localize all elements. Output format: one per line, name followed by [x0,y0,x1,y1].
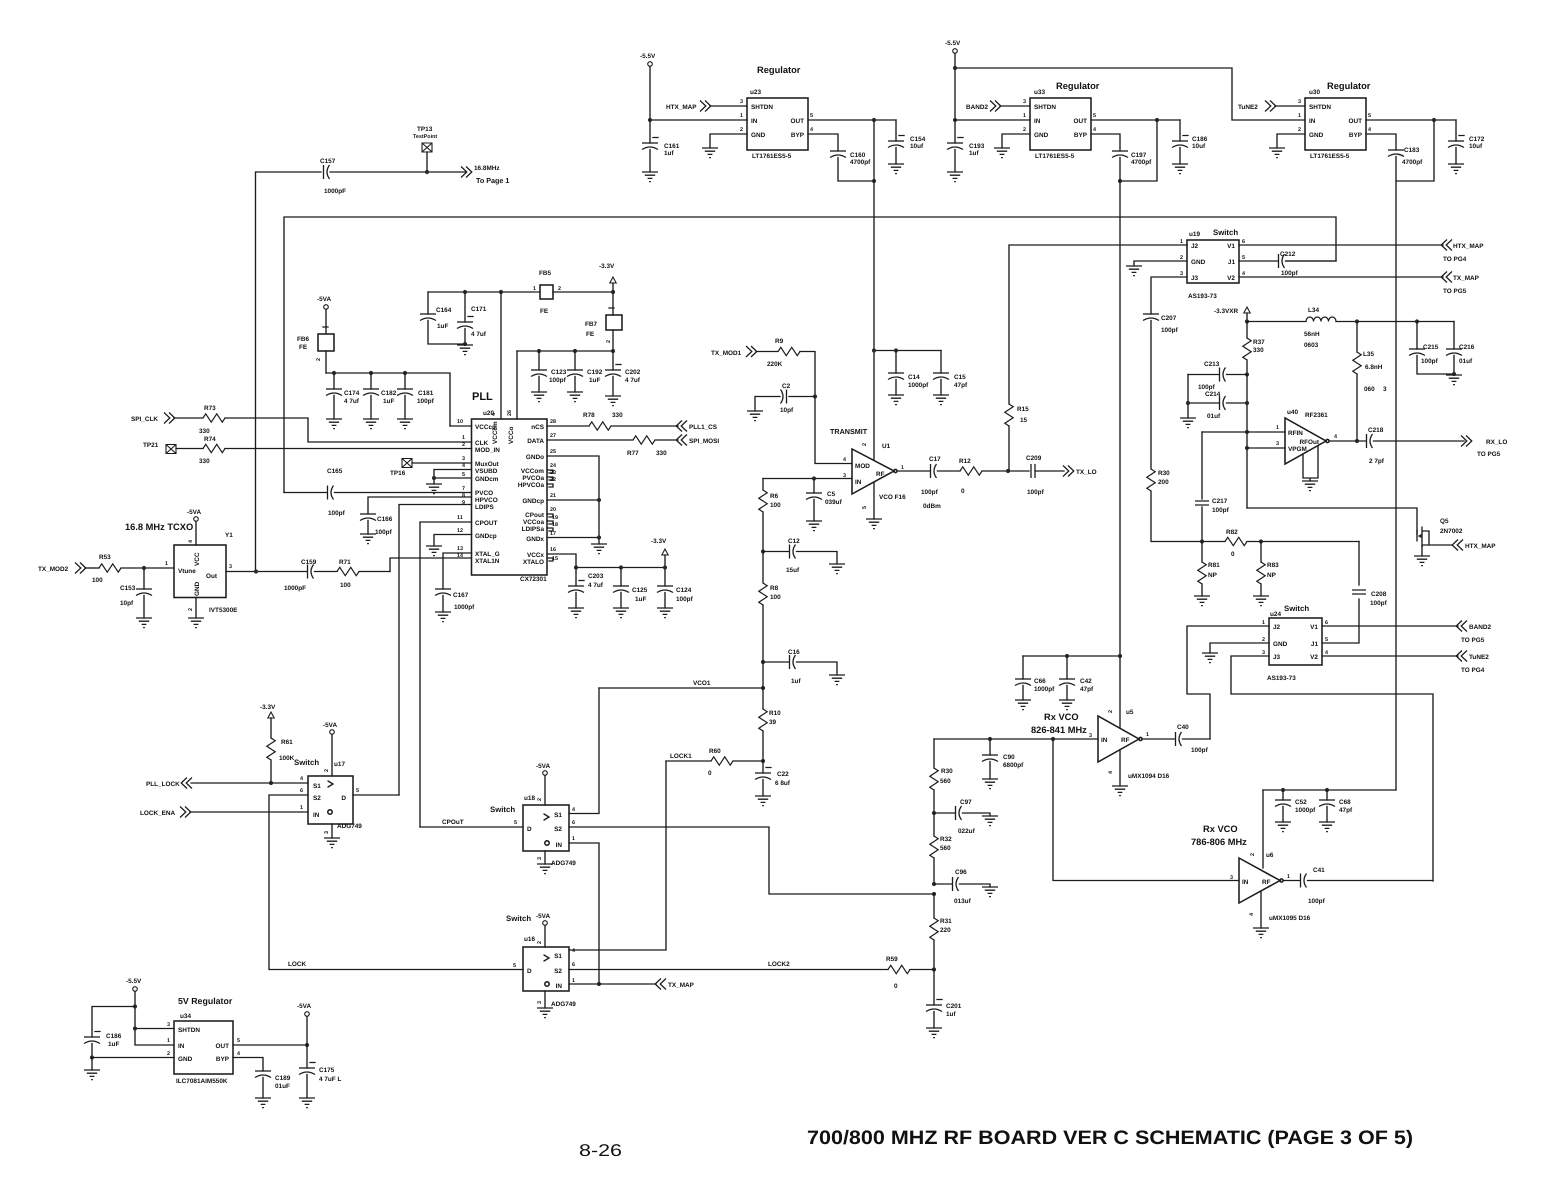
svg-text:13: 13 [457,546,463,552]
resistor R77 330 + off-page SPI_MOSI (pin27) [547,435,719,458]
svg-text:3: 3 [537,1001,543,1004]
svg-text:GND: GND [1309,132,1324,139]
svg-text:TestPoint: TestPoint [413,134,437,140]
svg-text:1000pF: 1000pF [284,585,306,592]
svg-text:4: 4 [810,127,813,133]
svg-text:C217: C217 [1212,498,1228,505]
svg-text:C214: C214 [1205,391,1221,398]
capacitor C167 1000pf (XTAL_G pin13) [435,553,475,622]
wire U5 pin4 ground [1112,750,1128,796]
capacitor C153 10pf [120,568,152,628]
svg-text:TX_MAP: TX_MAP [668,982,695,989]
wire U24 V1 + off-page BAND2 TO PG5 [1322,621,1491,645]
svg-text:C52: C52 [1295,799,1307,806]
svg-text:NP: NP [1267,572,1277,579]
power -3.3V at VCCx rail [651,538,668,570]
VCO module U5 Rx VCO 826-841 MHz [1031,656,1170,780]
svg-text:5: 5 [513,963,516,969]
svg-text:u30: u30 [1309,89,1320,96]
svg-text:1uf: 1uf [969,150,979,157]
wire C164/C171 rail y292 [428,290,540,294]
svg-text:0: 0 [894,983,898,990]
svg-text:VCCoa: VCCoa [523,519,544,526]
svg-text:GND: GND [194,581,201,596]
svg-text:C166: C166 [377,516,393,523]
testpoint TP21 + resistor R74 330 (MOD_IN) [143,436,472,465]
capacitor C160 4700pf [808,134,876,183]
svg-text:TX_MOD1: TX_MOD1 [711,350,742,357]
svg-text:RFIN: RFIN [1288,430,1303,437]
svg-text:RF2361: RF2361 [1305,412,1328,419]
svg-text:C15: C15 [954,374,966,381]
wire U19 V2 + off-page TX_MAP TO PG5 [1239,272,1480,296]
svg-text:S1: S1 [313,783,321,790]
svg-text:GNDo: GNDo [526,454,544,461]
svg-text:R6: R6 [770,493,779,500]
resistor R37 330 [1243,322,1265,377]
amplifier U40 RF2361 [1276,409,1337,464]
wire Q5 gate from VPGM node [1247,508,1417,534]
svg-text:100pf: 100pf [417,398,435,405]
svg-text:uMX1095 D16: uMX1095 D16 [1269,915,1311,922]
svg-text:J1: J1 [1228,259,1236,266]
off-page connector 16.8MHz [461,165,509,185]
svg-text:100: 100 [340,582,351,589]
svg-text:15uf: 15uf [786,567,800,574]
svg-text:C125: C125 [632,587,648,594]
svg-text:1: 1 [533,286,536,292]
capacitor C154 10uf [888,120,926,174]
svg-text:u18: u18 [524,795,535,802]
svg-text:5V Regulator: 5V Regulator [178,996,233,1006]
capacitor C203 4.7uf [568,568,604,618]
wire RFIN row [1202,431,1285,433]
svg-text:SHTDN: SHTDN [1034,104,1056,111]
svg-text:R71: R71 [339,559,351,566]
svg-text:2: 2 [1180,255,1183,261]
svg-text:-3.3V: -3.3V [260,704,276,711]
svg-text:330: 330 [612,412,623,419]
svg-text:4: 4 [1249,913,1255,916]
svg-text:C12: C12 [788,538,800,545]
svg-text:R53: R53 [99,554,111,561]
power -5.5V (reg2) [945,40,961,143]
svg-text:1: 1 [1287,874,1290,880]
svg-text:100pf: 100pf [1308,898,1326,905]
svg-text:27: 27 [550,433,556,439]
svg-text:C16: C16 [788,649,800,656]
svg-text:CPOUT: CPOUT [475,520,497,527]
svg-text:4: 4 [843,457,846,463]
svg-text:TP21: TP21 [143,442,159,449]
svg-text:R61: R61 [281,739,293,746]
svg-text:C171: C171 [471,306,487,313]
svg-text:BAND2: BAND2 [966,104,988,111]
svg-text:2: 2 [324,769,330,772]
capacitor C215 100pf [1409,322,1454,375]
svg-text:IN: IN [178,1043,185,1050]
svg-text:3: 3 [1180,271,1183,277]
wire U17 S2 to LOCK net [269,795,523,970]
svg-text:V1: V1 [1227,243,1235,250]
svg-text:C157: C157 [320,158,336,165]
power -5.5V for U34 [126,978,174,1045]
capacitor C208 100pf [1322,542,1388,644]
svg-text:1: 1 [300,805,303,811]
svg-text:IN: IN [855,479,862,486]
svg-text:L35: L35 [1363,351,1374,358]
resistor R32 560 [930,813,952,886]
capacitor C12 15uf [761,538,845,574]
svg-text:MOD: MOD [855,463,870,470]
svg-text:TP13: TP13 [417,126,433,133]
svg-text:L34: L34 [1308,307,1319,314]
svg-text:u6: u6 [1266,852,1274,859]
svg-text:ADG749: ADG749 [551,1001,576,1008]
svg-text:R12: R12 [959,458,971,465]
svg-text:-5VA: -5VA [536,763,550,770]
svg-text:100K: 100K [279,755,295,762]
svg-text:LOCK_ENA: LOCK_ENA [140,810,176,817]
svg-text:11: 11 [457,515,463,521]
svg-text:C207: C207 [1161,315,1177,322]
svg-text:C159: C159 [301,559,317,566]
svg-text:S2: S2 [554,968,562,975]
svg-text:FE: FE [586,331,595,338]
svg-text:u23: u23 [750,89,761,96]
svg-text:3: 3 [229,564,232,570]
wire U24 J3 staircase to C41 [1231,656,1433,881]
svg-text:GNDx: GNDx [526,536,544,543]
svg-text:6: 6 [1242,239,1245,245]
off-page connector HTX_MAP to reg1 [666,99,747,112]
svg-text:C218: C218 [1368,427,1384,434]
capacitor C5 039uf [806,479,843,531]
transistor Q5 2N7002 [1414,518,1496,566]
svg-text:S2: S2 [554,826,562,833]
off-page connector TUNE2 to reg3 [1238,99,1305,112]
svg-text:-5VA: -5VA [297,1003,311,1010]
svg-text:022uf: 022uf [958,828,976,835]
svg-text:330: 330 [656,450,667,457]
svg-text:GND: GND [751,132,766,139]
svg-text:2: 2 [188,608,194,611]
wire net LOCK2 + resistor R59 0 [569,956,934,990]
svg-text:2: 2 [558,286,561,292]
wire reg3 GND + ground [1269,134,1305,158]
svg-text:FE: FE [540,308,549,315]
svg-text:IN: IN [1101,737,1108,744]
svg-text:R59: R59 [886,956,898,963]
svg-text:SHTDN: SHTDN [1309,104,1331,111]
svg-text:8: 8 [462,493,465,499]
svg-text:IN: IN [751,118,758,125]
wire U19 J3 to C207 [1151,277,1187,314]
svg-text:XTAL_G: XTAL_G [475,551,500,558]
svg-text:-5VA: -5VA [323,722,337,729]
wire PLL right ground bracket pins 25/21/17 [547,456,607,554]
wire decoupling rail y373 [326,371,450,426]
svg-text:-5.5V: -5.5V [640,53,656,60]
svg-text:TO PG5: TO PG5 [1461,637,1485,644]
capacitor C2 10pf [747,383,815,421]
svg-text:RF: RF [876,471,885,478]
wire reg1 IN [650,119,747,121]
svg-text:R73: R73 [204,405,216,412]
svg-text:2: 2 [167,1051,170,1057]
svg-text:5: 5 [862,506,868,509]
wire U6 pin4 ground [1253,891,1269,938]
svg-text:330: 330 [199,428,210,435]
svg-text:LDIPSa: LDIPSa [522,526,545,533]
capacitor C175 4.7uF L [299,1063,341,1108]
svg-text:u17: u17 [334,761,345,768]
capacitor C189 0.1uF (BYP) [233,1058,291,1108]
svg-text:R60: R60 [709,748,721,755]
svg-text:R30: R30 [1158,470,1170,477]
svg-text:S1: S1 [554,953,562,960]
capacitor C161 1uf [642,138,680,182]
svg-text:4: 4 [1108,771,1114,774]
svg-text:C197: C197 [1131,152,1147,159]
svg-text:C208: C208 [1371,591,1387,598]
svg-text:DATA: DATA [527,438,544,445]
svg-text:SPI_CLK: SPI_CLK [131,416,158,423]
capacitor C182 1uF [363,373,397,429]
wire U5 supply rail y656 [1023,654,1122,658]
svg-text:01uf: 01uf [1207,413,1221,420]
svg-text:C189: C189 [275,1075,291,1082]
svg-text:LOCK2: LOCK2 [768,961,790,968]
capacitor C17 100pf (U1 output) [897,456,960,510]
svg-text:IN: IN [313,812,320,819]
svg-text:10uf: 10uf [910,143,924,150]
svg-text:100pf: 100pf [549,377,567,384]
resistor R8 100 [759,552,781,663]
svg-text:D: D [527,968,532,975]
svg-text:HTX_MAP: HTX_MAP [1453,243,1484,250]
capacitor C166 100pf (HPVCO pin8) [360,497,472,544]
wire U34 GND [92,1057,174,1059]
wire C213/C214 left leg + ground [1180,375,1196,428]
svg-text:1000pf: 1000pf [1034,686,1055,693]
svg-text:6: 6 [1325,620,1328,626]
wire U19 J2 to R15 top [1009,245,1187,404]
svg-text:TX_MOD2: TX_MOD2 [38,566,69,573]
wire GNDcp pin12 + ground [426,535,472,556]
wire U34 OUT node [233,1043,309,1047]
svg-text:5: 5 [1242,255,1245,261]
svg-text:C203: C203 [588,573,604,580]
svg-text:J3: J3 [1273,654,1281,661]
svg-text:IVT5300E: IVT5300E [209,607,238,614]
svg-text:J2: J2 [1191,243,1199,250]
svg-text:4: 4 [300,776,303,782]
svg-text:15: 15 [1020,417,1028,424]
svg-text:-5.5V: -5.5V [126,978,142,985]
svg-text:V1: V1 [1310,624,1318,631]
svg-text:12: 12 [457,528,463,534]
svg-text:ADG749: ADG749 [551,860,576,867]
wire U16 pin3 ground [537,991,553,1018]
wire PLL top decoupling rail y351 [517,349,615,353]
svg-text:C22: C22 [777,771,789,778]
off-page connector TX_MOD2 + resistor R53 100 [38,554,174,584]
svg-text:TO PG4: TO PG4 [1461,667,1485,674]
svg-text:uMX1094 D16: uMX1094 D16 [1128,773,1170,780]
svg-text:0603: 0603 [1304,342,1319,349]
wire reg1 OUT node [808,118,896,122]
svg-text:21: 21 [550,493,556,499]
svg-text:GND: GND [1273,641,1288,648]
switch U24 AS193-73 [1262,604,1328,682]
svg-text:AS193-73: AS193-73 [1188,293,1217,300]
svg-text:2: 2 [1023,127,1026,133]
svg-text:2: 2 [862,443,868,446]
wire -5V vertical x1120 down to RxVCO U5 [1119,181,1121,656]
svg-text:R82: R82 [1226,529,1238,536]
svg-text:TuNE2: TuNE2 [1469,654,1489,661]
wire reg3 OUT node [1366,118,1456,122]
svg-text:5: 5 [356,788,359,794]
svg-text:VCCo: VCCo [508,427,515,444]
svg-text:2: 2 [316,358,322,361]
svg-text:Rx VCO: Rx VCO [1203,824,1238,834]
svg-text:7: 7 [462,486,465,492]
svg-text:CLK: CLK [475,440,489,447]
svg-text:100pf: 100pf [1421,358,1439,365]
svg-text:0: 0 [961,488,965,495]
inductor L34 56nH 0603 [1247,307,1454,349]
svg-text:220: 220 [940,927,951,934]
svg-text:4700pf: 4700pf [1131,159,1152,166]
wire R37 node down to VPGM and Q5 gate [1245,375,1249,509]
svg-text:4 7uf: 4 7uf [625,377,641,384]
svg-text:VCC: VCC [194,552,201,566]
svg-text:6.8nH: 6.8nH [1365,364,1383,371]
power -5.5V (reg1) [640,53,656,143]
svg-text:5: 5 [810,113,813,119]
power -5VA for TCXO [187,509,201,545]
svg-text:100pf: 100pf [1198,384,1216,391]
capacitor C181 100pf [397,373,435,429]
resistor R31 220 [930,894,952,972]
svg-text:6: 6 [572,820,575,826]
capacitor C212 100pf on U19 J1 [1239,251,1336,277]
wire XTAL1 pin14 [390,558,472,572]
svg-text:Rx VCO: Rx VCO [1044,712,1079,722]
svg-text:6: 6 [572,962,575,968]
svg-text:1000pF: 1000pF [324,188,346,195]
svg-text:28: 28 [550,419,556,425]
svg-text:J1: J1 [1311,641,1319,648]
power -5VA for U16 [536,913,550,947]
svg-text:100: 100 [92,577,103,584]
svg-text:BYP: BYP [1074,132,1088,139]
svg-text:100pf: 100pf [1212,507,1230,514]
svg-text:HPVCO: HPVCO [475,497,498,504]
wire CPOUT pin11 down to U18 D [420,522,472,827]
svg-text:039uf: 039uf [825,499,843,506]
wire U40 ground pins [1302,446,1318,491]
svg-text:1000pf: 1000pf [1295,807,1316,814]
svg-text:060: 060 [1364,386,1375,393]
svg-text:100: 100 [770,594,781,601]
svg-text:16: 16 [550,547,556,553]
svg-text:10: 10 [457,419,463,425]
svg-text:1: 1 [462,435,465,441]
wire VDD vertical x874 (reg1 OUT down to U1) [873,120,875,461]
svg-text:5: 5 [514,820,517,826]
svg-text:RF: RF [1121,737,1130,744]
capacitor C15 47pf [933,351,968,405]
svg-text:C40: C40 [1177,724,1189,731]
svg-text:BAND2: BAND2 [1469,624,1491,631]
svg-text:FB6: FB6 [297,336,310,343]
wire reg1 GND + ground [702,134,747,158]
svg-text:C186: C186 [106,1033,122,1040]
svg-text:1uf: 1uf [664,150,674,157]
svg-text:PVCOa: PVCOa [522,475,544,482]
capacitor C213 100pf [1188,361,1247,391]
svg-text:FB7: FB7 [585,321,598,328]
svg-text:3: 3 [1276,441,1279,447]
testpoint TP13 [413,126,437,174]
svg-text:R30: R30 [941,768,953,775]
svg-text:1: 1 [1146,732,1149,738]
svg-text:LDIPS: LDIPS [475,504,495,511]
capacitor C14 1000pf [872,348,941,404]
wire net LOCK1 + resistor R60 0 [666,748,765,777]
capacitor C16 1uf [761,649,845,685]
svg-text:1: 1 [167,1038,170,1044]
svg-text:1: 1 [572,978,575,984]
svg-text:C172: C172 [1469,136,1485,143]
resistor R78 330 + off-page PLL1_CS (pin28) [547,412,718,432]
svg-text:2: 2 [462,442,465,448]
svg-text:C192: C192 [587,369,603,376]
svg-text:C174: C174 [344,390,360,397]
svg-text:330: 330 [199,458,210,465]
svg-text:100: 100 [770,502,781,509]
power -3.3V at FB5 [599,263,616,315]
svg-text:4: 4 [572,807,575,813]
svg-text:C5: C5 [827,491,836,498]
svg-text:GND: GND [1191,259,1206,266]
svg-text:C68: C68 [1339,799,1351,806]
svg-text:10pf: 10pf [780,407,794,414]
svg-text:VCCom: VCCom [521,468,544,475]
svg-text:ILC7081AIM550K: ILC7081AIM550K [176,1078,228,1085]
VCO module U6 Rx VCO 786-806 MHz [1191,790,1311,922]
wire PLL pin4/pin5 to ground [426,470,472,494]
capacitor C41 100pf [1283,867,1433,905]
wire U24 GND + ground [1202,643,1269,663]
svg-text:Regulator: Regulator [1056,81,1100,91]
capacitor C125 1uF [613,568,648,618]
svg-text:3: 3 [1383,386,1387,393]
ferrite bead FB5 [533,270,615,315]
svg-text:5: 5 [1325,637,1328,643]
svg-text:39: 39 [769,719,777,726]
svg-text:VCCx: VCCx [527,552,544,559]
switch U18 ADG749 [490,795,576,867]
svg-text:5: 5 [237,1038,240,1044]
wire TCXO out [226,569,307,573]
svg-text:PLL1_CS: PLL1_CS [689,424,718,431]
svg-text:1uF: 1uF [437,323,448,330]
svg-text:C154: C154 [910,136,926,143]
